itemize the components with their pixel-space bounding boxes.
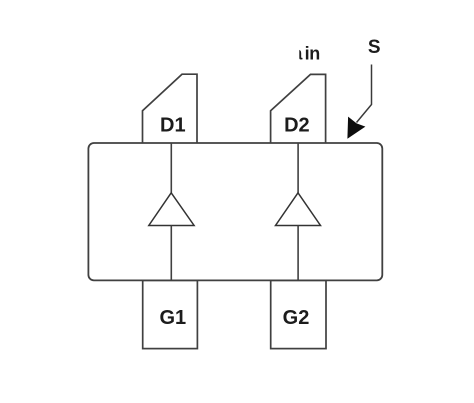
wire from triangle 2 base to G2 (297, 226, 299, 281)
S pointer line (elbow connector) (357, 65, 372, 123)
svg-text:G1: G1 (159, 307, 186, 329)
wire from D2 to arrow apex (297, 144, 299, 193)
S pointer arrowhead (347, 117, 365, 139)
pin G1 (bottom lead rectangle) (143, 281, 198, 349)
label Drain (partly hidden, reads "ain") (280, 38, 320, 64)
transistor arrow (triangle) for channel 2 (276, 193, 321, 226)
svg-text:S: S (368, 37, 381, 58)
wire from D1 to arrow apex (170, 144, 172, 193)
pin D2 (top lead, flag shape) (271, 74, 326, 143)
package body U1 (88, 143, 382, 280)
svg-text:D2: D2 (284, 115, 310, 137)
pin D1 (top lead, flag shape) (143, 74, 198, 143)
wire from triangle 1 base to G1 (170, 226, 172, 281)
svg-text:G2: G2 (283, 307, 310, 329)
svg-text:D1: D1 (160, 115, 186, 137)
transistor arrow (triangle) for channel 1 (149, 193, 194, 226)
pin G2 (bottom lead rectangle) (271, 281, 326, 349)
svg-text:n: n (309, 44, 320, 64)
